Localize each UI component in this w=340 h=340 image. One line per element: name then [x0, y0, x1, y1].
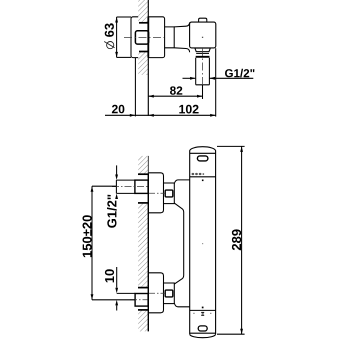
dimension 10 (front view): [115, 267, 135, 311]
dot above lower seam (front view): [202, 307, 204, 309]
horizontal center line (top view): [124, 36, 164, 38]
top supply pipe stub outside wall (front view): [116, 180, 134, 193]
temperature marks row (front view): [193, 313, 194, 314]
bottom supply pipe inside wall (front view): [135, 294, 148, 307]
wall hatch (top view, below hole): [138, 52, 148, 75]
wall hatch (top view, above hole): [138, 0, 148, 22]
dimension 150+-20 (front view): [91, 186, 135, 300]
outlet flange thick ring (top view): [196, 56, 210, 58]
label 289: [232, 229, 241, 250]
outlet flange step 1 (top view): [195, 48, 210, 52]
dimension 289 (front view): [217, 146, 245, 334]
top knob (front view): [164, 183, 175, 204]
top pipe center line (front view): [112, 186, 148, 188]
center cross dot (top view): [202, 37, 203, 38]
wall face line (top view): [147, 0, 149, 116]
handle body (top view, d63): [131, 17, 165, 58]
body bottom arc (front view): [190, 334, 216, 337]
outlet pipe (top view): [196, 58, 210, 85]
top supply pipe inside wall (front view): [135, 180, 148, 193]
bottom knob (front view): [164, 283, 175, 304]
wall hole edge marks bottom connection (front view): [138, 287, 148, 289]
faucet column body (front view): [190, 147, 216, 335]
label d63: [105, 23, 114, 37]
bottom oval slot (front view): [198, 326, 207, 331]
top escutcheon handle (front view): [148, 173, 163, 213]
body upper seam (front view): [190, 176, 216, 178]
bottom escutcheon handle (front view): [148, 273, 163, 313]
neck cone into body (top view): [174, 22, 189, 52]
label G1/2 top: [225, 69, 254, 78]
label G1/2 (front view): [115, 165, 118, 199]
wall face line (front view): [147, 156, 149, 174]
neck between handle and body (top view): [165, 26, 175, 48]
label 82: [170, 86, 182, 94]
faint middle dot (front view): [202, 243, 203, 244]
bottom knob end square (front view): [165, 290, 173, 297]
top horn into body (front view): [174, 180, 189, 284]
label 20: [112, 105, 125, 114]
bottom pipe center line (front view): [130, 299, 148, 301]
body top cap seam (front view): [190, 152, 216, 154]
dot below upper seam (front view): [202, 180, 204, 182]
body lower seam (front view): [190, 309, 216, 311]
cartridge body (top view): [190, 22, 216, 48]
label 102: [179, 105, 198, 114]
label 150+-20: [83, 215, 92, 257]
wall hole edge marks (top view): [139, 22, 148, 24]
body bottom cap seam (front view): [190, 332, 216, 334]
top connection center line (front view): [149, 192, 165, 194]
dimension 82 (top view): [148, 85, 202, 99]
outlet flange step 2 (top view): [196, 52, 209, 54]
label 10: [105, 269, 114, 282]
wall hole edge marks top connection (front view): [138, 173, 148, 175]
tiny logo text on body (front view): [192, 173, 205, 175]
bottom horn into body (front view): [174, 303, 189, 307]
label G1/2 with arrows (top view): [183, 77, 254, 80]
wall back boundary line (top view, below handle): [134, 58, 136, 117]
top knob end square (front view): [165, 190, 173, 197]
label G1/2 bottom: [107, 195, 117, 228]
cap on body top (top view): [199, 18, 207, 22]
top oval slot (front view): [197, 156, 208, 161]
handle grip inner rect (top view): [135, 31, 148, 44]
dimension 20 and 102 (top view): [105, 48, 216, 117]
vertical center line of outlet pipe (top view): [202, 48, 204, 99]
wall hatch (front view segments): [138, 156, 148, 174]
diameter symbol of d63: [107, 42, 114, 49]
dimension d63 (top view): [115, 17, 131, 57]
bottom connection center line (front view): [149, 292, 165, 294]
